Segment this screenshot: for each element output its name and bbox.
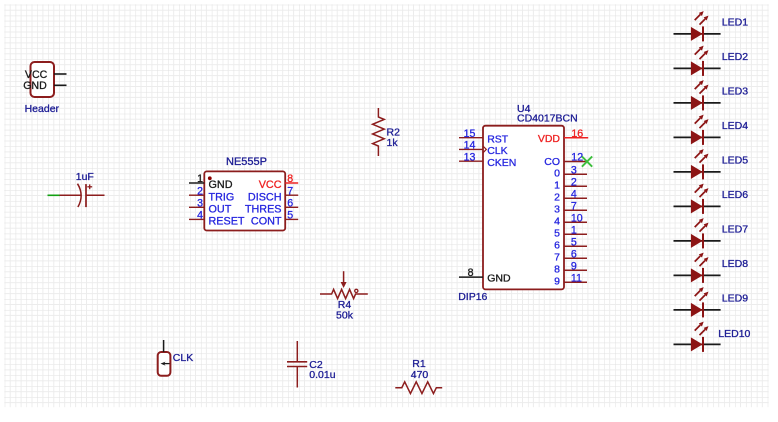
svg-text:RST: RST <box>487 134 509 146</box>
svg-text:3: 3 <box>197 197 203 209</box>
svg-text:DIP16: DIP16 <box>458 291 487 303</box>
svg-text:CLK: CLK <box>487 145 507 157</box>
svg-text:15: 15 <box>464 128 476 140</box>
svg-text:7: 7 <box>571 200 577 212</box>
svg-text:CKEN: CKEN <box>487 157 516 169</box>
svg-text:1uF: 1uF <box>76 171 94 183</box>
svg-text:2: 2 <box>197 185 203 197</box>
svg-text:50k: 50k <box>336 310 354 322</box>
svg-text:7: 7 <box>287 185 293 197</box>
svg-text:5: 5 <box>554 227 560 239</box>
svg-text:13: 13 <box>464 151 476 163</box>
svg-text:GND: GND <box>487 273 511 285</box>
svg-text:CONT: CONT <box>251 216 282 228</box>
svg-text:6: 6 <box>571 248 577 260</box>
svg-text:VCC: VCC <box>259 179 282 191</box>
svg-text:GND: GND <box>23 80 47 92</box>
svg-text:0: 0 <box>554 167 560 179</box>
svg-text:LED4: LED4 <box>722 120 748 132</box>
svg-text:LED2: LED2 <box>722 51 748 63</box>
svg-text:6: 6 <box>287 197 293 209</box>
svg-text:4: 4 <box>197 210 203 222</box>
svg-text:CO: CO <box>544 156 560 168</box>
svg-text:9: 9 <box>554 275 560 287</box>
svg-text:5: 5 <box>287 210 293 222</box>
svg-text:11: 11 <box>571 272 582 284</box>
svg-text:LED3: LED3 <box>722 85 748 97</box>
svg-text:VDD: VDD <box>538 133 561 145</box>
svg-text:CD4017BCN: CD4017BCN <box>517 112 578 124</box>
svg-text:2: 2 <box>571 176 577 188</box>
svg-text:CLK: CLK <box>173 352 193 364</box>
svg-text:6: 6 <box>554 239 560 251</box>
svg-text:LED6: LED6 <box>722 189 748 201</box>
svg-text:5: 5 <box>571 236 577 248</box>
svg-text:LED1: LED1 <box>722 16 748 28</box>
svg-text:8: 8 <box>287 173 293 185</box>
svg-text:3: 3 <box>571 164 577 176</box>
svg-text:Header: Header <box>25 103 60 115</box>
svg-text:2: 2 <box>554 191 560 203</box>
svg-text:VCC: VCC <box>25 69 48 81</box>
svg-text:NE555P: NE555P <box>226 156 267 168</box>
svg-text:1: 1 <box>554 179 560 191</box>
svg-text:LED8: LED8 <box>722 258 748 270</box>
svg-text:DISCH: DISCH <box>248 191 282 203</box>
svg-text:4: 4 <box>571 188 577 200</box>
svg-text:16: 16 <box>571 128 583 140</box>
svg-text:4: 4 <box>554 215 560 227</box>
svg-text:470: 470 <box>411 369 429 381</box>
svg-text:14: 14 <box>464 140 476 152</box>
svg-text:3: 3 <box>554 203 560 215</box>
svg-text:12: 12 <box>571 152 583 164</box>
svg-text:1k: 1k <box>387 137 399 149</box>
svg-text:OUT: OUT <box>209 203 232 215</box>
svg-text:8: 8 <box>554 263 560 275</box>
svg-text:1: 1 <box>571 224 577 236</box>
svg-text:9: 9 <box>571 260 577 272</box>
svg-text:1: 1 <box>197 173 203 185</box>
svg-text:GND: GND <box>209 179 233 191</box>
svg-text:7: 7 <box>554 251 560 263</box>
svg-text:RESET: RESET <box>209 216 245 228</box>
svg-text:LED7: LED7 <box>722 223 748 235</box>
svg-text:10: 10 <box>571 212 583 224</box>
svg-text:LED9: LED9 <box>722 292 748 304</box>
svg-text:0.01u: 0.01u <box>309 369 335 381</box>
svg-text:LED10: LED10 <box>718 328 750 340</box>
svg-text:TRIG: TRIG <box>209 191 235 203</box>
svg-text:THRES: THRES <box>245 203 282 215</box>
svg-text:LED5: LED5 <box>722 154 748 166</box>
svg-text:8: 8 <box>468 267 474 279</box>
